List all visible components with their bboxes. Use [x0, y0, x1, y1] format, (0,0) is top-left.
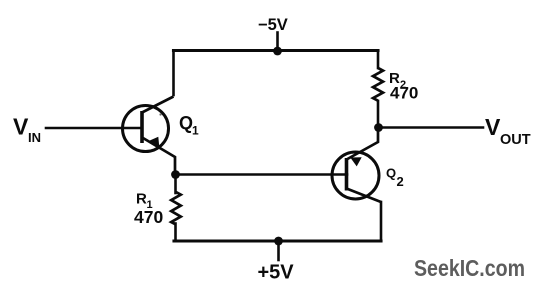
power rail +5V (bottom)	[174, 239, 381, 242]
wire R1 to +5V rail	[174, 224, 177, 242]
svg-text:+5V: +5V	[258, 262, 295, 284]
wire +5V stub	[277, 241, 280, 260]
svg-text:1: 1	[192, 124, 199, 138]
svg-text:IN: IN	[28, 130, 41, 145]
svg-text:470: 470	[390, 84, 418, 103]
svg-text:V: V	[13, 114, 29, 140]
scan speck inside Q1	[159, 113, 161, 115]
junction dot top rail	[273, 47, 282, 56]
junction dot V_OUT node	[374, 123, 383, 132]
wire -5V stub	[276, 33, 279, 51]
svg-text:2: 2	[397, 174, 404, 189]
wire node A to R1	[174, 173, 177, 193]
svg-text:V: V	[485, 114, 501, 140]
wire Q1 collector riser	[172, 51, 175, 96]
junction node A (Q1 emitter)	[171, 170, 180, 179]
wire Q2 collector to +5V rail	[380, 202, 383, 241]
resistor R2	[373, 68, 383, 101]
transistor Q2	[332, 128, 381, 203]
svg-text:−5V: −5V	[258, 16, 288, 34]
transistor Q1	[123, 97, 176, 175]
resistor R1	[171, 192, 181, 225]
wire node A to Q2 base	[175, 173, 347, 176]
svg-text:SeekIC.com: SeekIC.com	[414, 255, 525, 281]
power rail -5V (top)	[174, 49, 379, 52]
svg-text:470: 470	[134, 207, 163, 227]
svg-text:R: R	[136, 191, 147, 208]
svg-text:OUT: OUT	[500, 132, 531, 148]
wire V_IN lead	[46, 127, 140, 130]
svg-text:Q: Q	[179, 113, 193, 133]
wire R2 to V_OUT node	[377, 101, 380, 128]
wire V_OUT lead	[379, 126, 484, 129]
wire top rail to R2	[377, 51, 380, 69]
svg-text:Q: Q	[386, 166, 396, 181]
junction dot bottom rail	[274, 237, 283, 246]
